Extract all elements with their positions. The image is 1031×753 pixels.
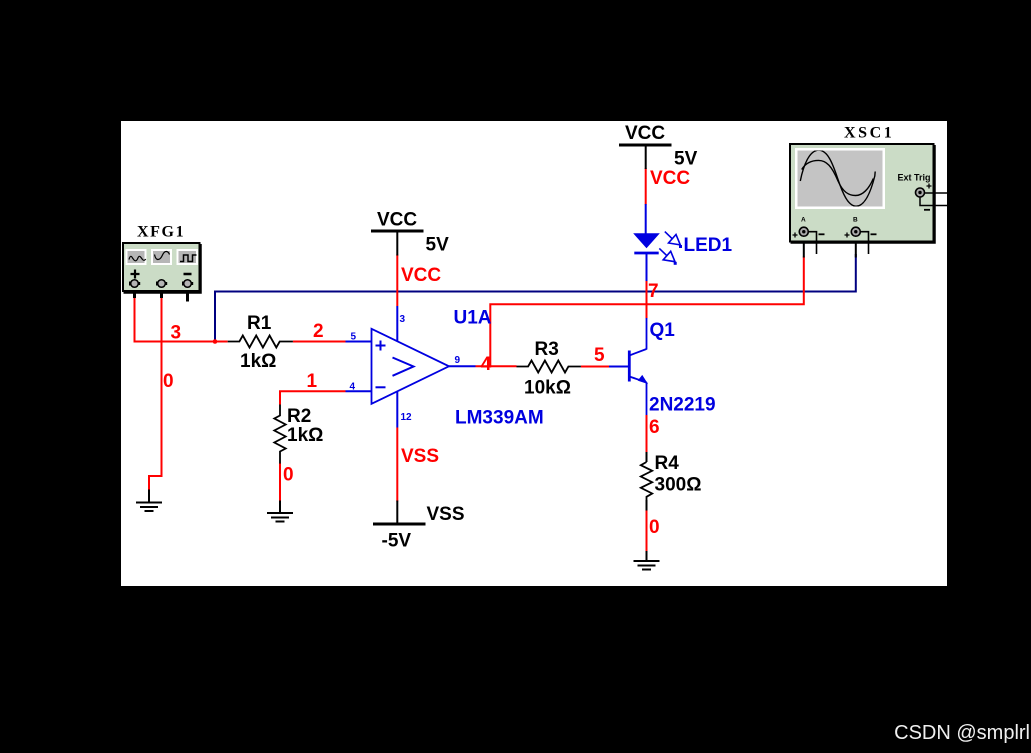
svg-text:300Ω: 300Ω — [655, 475, 702, 496]
svg-text:5: 5 — [594, 345, 605, 366]
svg-text:3: 3 — [400, 314, 406, 325]
svg-text:LED1: LED1 — [684, 235, 733, 256]
svg-text:VCC: VCC — [401, 265, 441, 286]
svg-text:7: 7 — [648, 281, 659, 302]
svg-text:-5V: -5V — [382, 531, 412, 552]
svg-text:R3: R3 — [535, 339, 559, 360]
svg-text:R4: R4 — [655, 453, 680, 474]
svg-text:0: 0 — [283, 465, 294, 486]
svg-text:1kΩ: 1kΩ — [287, 425, 323, 446]
svg-text:B: B — [853, 217, 858, 224]
svg-text:R1: R1 — [247, 313, 272, 334]
svg-text:5V: 5V — [674, 149, 698, 170]
svg-text:A: A — [801, 217, 806, 224]
svg-text:4: 4 — [481, 354, 492, 375]
svg-text:4: 4 — [350, 382, 356, 393]
svg-text:2N2219: 2N2219 — [649, 395, 716, 416]
svg-text:6: 6 — [649, 417, 660, 438]
svg-text:VSS: VSS — [427, 504, 465, 525]
svg-text:LM339AM: LM339AM — [455, 408, 544, 429]
svg-text:U1A: U1A — [454, 308, 492, 329]
svg-text:2: 2 — [313, 321, 324, 342]
svg-text:0: 0 — [163, 371, 174, 392]
svg-text:XFG1: XFG1 — [137, 224, 185, 241]
svg-text:XSC1: XSC1 — [844, 125, 894, 142]
svg-text:Q1: Q1 — [650, 320, 676, 341]
svg-text:VCC: VCC — [625, 123, 665, 144]
svg-text:VCC: VCC — [377, 210, 417, 231]
svg-text:Ext Trig: Ext Trig — [898, 173, 931, 183]
svg-text:0: 0 — [649, 517, 660, 538]
svg-text:5V: 5V — [426, 235, 450, 256]
svg-text:1kΩ: 1kΩ — [240, 351, 276, 372]
svg-text:VSS: VSS — [401, 446, 439, 467]
svg-text:1: 1 — [307, 371, 318, 392]
svg-text:9: 9 — [455, 355, 461, 366]
svg-text:R2: R2 — [287, 406, 311, 427]
svg-text:5: 5 — [351, 332, 357, 343]
svg-text:3: 3 — [171, 323, 182, 344]
svg-text:10kΩ: 10kΩ — [524, 378, 571, 399]
svg-text:12: 12 — [401, 412, 413, 423]
svg-text:VCC: VCC — [650, 168, 690, 189]
